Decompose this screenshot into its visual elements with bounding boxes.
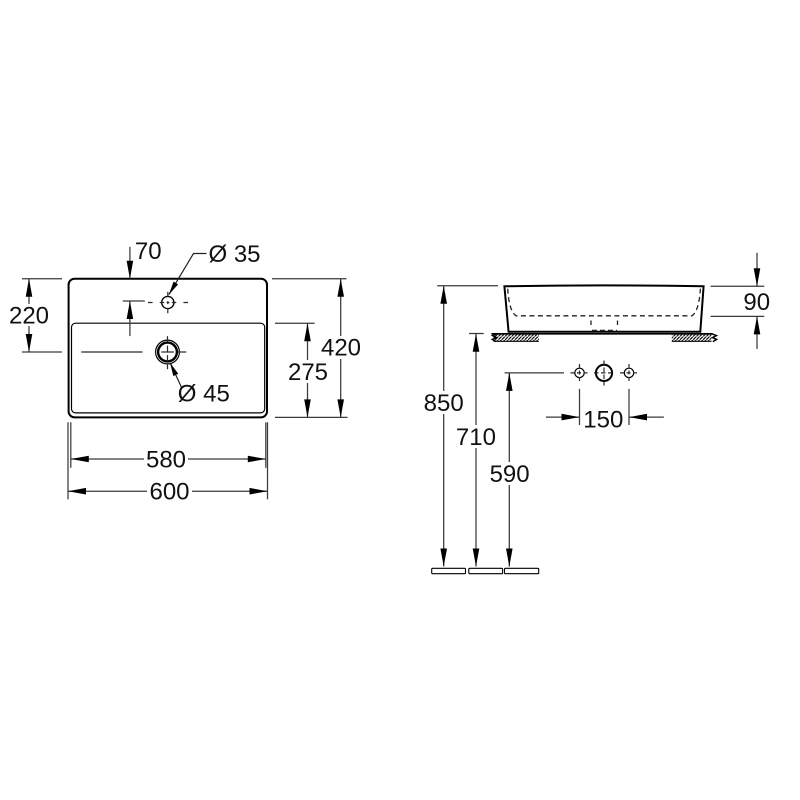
svg-text:70: 70 <box>135 238 162 265</box>
svg-text:420: 420 <box>321 335 361 362</box>
svg-text:590: 590 <box>490 461 530 488</box>
svg-text:600: 600 <box>149 478 189 505</box>
svg-text:220: 220 <box>9 302 49 329</box>
svg-text:580: 580 <box>146 446 186 473</box>
svg-text:275: 275 <box>288 359 328 386</box>
svg-text:Ø 35: Ø 35 <box>208 241 260 268</box>
svg-text:150: 150 <box>583 406 623 433</box>
svg-text:90: 90 <box>743 289 770 316</box>
svg-text:710: 710 <box>456 424 496 451</box>
svg-text:Ø 45: Ø 45 <box>178 380 230 407</box>
svg-text:850: 850 <box>424 390 464 417</box>
